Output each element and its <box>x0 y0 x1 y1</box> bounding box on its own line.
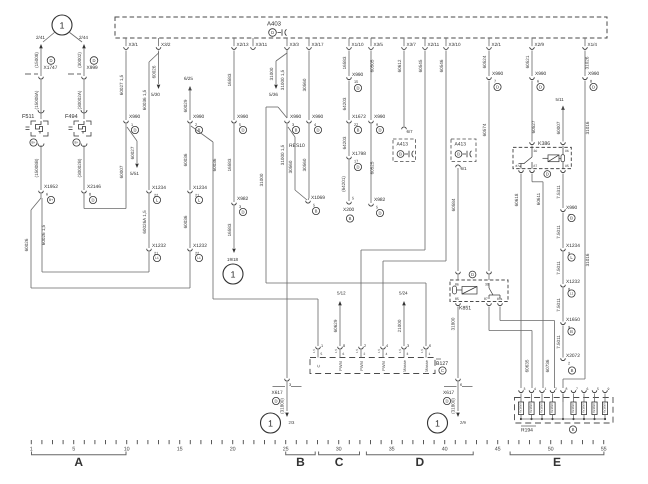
svg-text:1,5: 1,5 <box>420 349 424 354</box>
svg-text:(15008B): (15008B) <box>34 158 39 177</box>
svg-text:31800: 31800 <box>451 317 456 330</box>
svg-text:5: 5 <box>313 204 315 208</box>
svg-text:(30002B): (30002B) <box>77 158 82 177</box>
svg-text:8: 8 <box>590 80 592 84</box>
svg-text:B: B <box>570 216 573 221</box>
svg-text:R194: R194 <box>521 428 533 434</box>
svg-text:D: D <box>49 58 52 63</box>
svg-text:X990: X990 <box>566 205 578 211</box>
svg-text:40: 40 <box>442 447 448 453</box>
svg-text:3: 3 <box>407 344 409 348</box>
svg-text:5: 5 <box>72 447 75 453</box>
svg-text:X1798: X1798 <box>352 151 366 157</box>
svg-text:6/7: 6/7 <box>407 129 414 134</box>
svg-text:D: D <box>471 272 474 277</box>
svg-text:B: B <box>571 368 574 373</box>
svg-text:B: B <box>457 152 460 157</box>
svg-text:6: 6 <box>429 344 431 348</box>
svg-text:X1232: X1232 <box>566 279 580 285</box>
svg-text:D: D <box>91 198 94 203</box>
svg-text:85: 85 <box>565 164 569 168</box>
svg-text:B+: B+ <box>75 141 79 145</box>
svg-text:3: 3 <box>407 352 409 356</box>
svg-text:X2/11: X2/11 <box>428 42 440 47</box>
svg-text:20: 20 <box>230 447 236 453</box>
svg-text:35: 35 <box>389 447 395 453</box>
svg-text:D: D <box>274 399 277 404</box>
svg-text:60036: 60036 <box>183 153 188 166</box>
svg-text:45: 45 <box>495 447 501 453</box>
svg-text:B: B <box>357 128 360 133</box>
svg-text:2: 2 <box>568 362 570 366</box>
svg-text:D: D <box>592 85 595 90</box>
svg-text:D: D <box>496 85 499 90</box>
svg-text:X3/3: X3/3 <box>290 42 300 47</box>
svg-text:A413: A413 <box>455 142 467 148</box>
svg-text:A403: A403 <box>267 21 282 28</box>
svg-text:X990: X990 <box>312 114 324 120</box>
svg-text:(30002): (30002) <box>77 52 82 68</box>
svg-text:15: 15 <box>354 80 358 84</box>
svg-text:X617: X617 <box>272 390 284 396</box>
svg-text:60612: 60612 <box>397 59 402 72</box>
svg-text:2: 2 <box>364 344 366 348</box>
svg-text:86: 86 <box>565 149 569 153</box>
svg-text:D: D <box>92 58 95 63</box>
svg-text:D: D <box>271 30 274 35</box>
svg-text:D: D <box>546 172 549 177</box>
svg-text:X990: X990 <box>535 71 547 77</box>
svg-text:(15008): (15008) <box>34 52 39 68</box>
svg-text:1: 1 <box>131 123 133 127</box>
svg-text:D: D <box>356 86 359 91</box>
svg-text:2: 2 <box>555 387 557 391</box>
svg-text:30: 30 <box>485 283 489 287</box>
svg-text:C: C <box>335 455 344 469</box>
svg-text:X1747: X1747 <box>44 65 58 71</box>
svg-text:W16W: W16W <box>582 403 586 413</box>
svg-text:9: 9 <box>608 387 610 391</box>
svg-text:31000 1,5: 31000 1,5 <box>280 69 285 90</box>
svg-text:60635: 60635 <box>525 359 530 372</box>
svg-text:X1952: X1952 <box>44 184 58 190</box>
svg-text:3: 3 <box>239 205 241 209</box>
svg-text:60618: 60618 <box>514 193 519 206</box>
svg-text:60036: 60036 <box>183 215 188 228</box>
svg-text:W16W: W16W <box>550 403 554 413</box>
svg-text:1,5: 1,5 <box>398 349 402 354</box>
svg-text:60545: 60545 <box>418 59 423 72</box>
svg-text:X1234: X1234 <box>566 243 580 249</box>
svg-text:K851: K851 <box>459 306 471 312</box>
svg-text:X990: X990 <box>129 114 141 120</box>
svg-text:5/30: 5/30 <box>151 92 160 97</box>
svg-text:F494: F494 <box>65 114 78 120</box>
svg-text:6/25: 6/25 <box>184 76 193 81</box>
svg-text:87a: 87a <box>516 164 521 168</box>
svg-text:1: 1 <box>59 21 64 31</box>
svg-text:6: 6 <box>343 352 345 356</box>
svg-text:60027 1,5: 60027 1,5 <box>119 74 124 95</box>
svg-text:X982: X982 <box>237 196 249 202</box>
svg-text:60524: 60524 <box>482 55 487 68</box>
svg-text:D: D <box>241 210 244 215</box>
svg-text:60611: 60611 <box>536 192 541 205</box>
svg-text:60026 1,5: 60026 1,5 <box>41 224 46 245</box>
svg-text:X990: X990 <box>237 114 249 120</box>
svg-text:60007: 60007 <box>556 121 561 134</box>
svg-text:B: B <box>572 427 575 432</box>
svg-text:60584: 60584 <box>451 198 456 211</box>
svg-text:A413: A413 <box>397 142 409 148</box>
svg-text:60521: 60521 <box>525 55 530 68</box>
svg-text:L1: L1 <box>155 256 159 260</box>
svg-text:5/11: 5/11 <box>556 97 565 102</box>
svg-text:5: 5 <box>239 123 241 127</box>
svg-text:60036: 60036 <box>212 158 217 171</box>
svg-text:3: 3 <box>289 383 291 387</box>
svg-text:60574: 60574 <box>482 123 487 136</box>
svg-text:19/18: 19/18 <box>227 257 239 262</box>
svg-text:X3/10: X3/10 <box>449 42 461 47</box>
svg-text:5/36: 5/36 <box>269 92 278 97</box>
svg-text:2: 2 <box>364 352 366 356</box>
svg-text:D: D <box>241 128 244 133</box>
svg-text:31026: 31026 <box>585 56 590 69</box>
svg-text:Masse: Masse <box>402 359 407 372</box>
svg-text:X3/11: X3/11 <box>256 42 268 47</box>
svg-text:1: 1 <box>268 419 273 429</box>
svg-text:21000: 21000 <box>397 319 402 332</box>
svg-text:A: A <box>74 455 83 469</box>
svg-text:L1: L1 <box>570 292 574 296</box>
svg-text:7.5011: 7.5011 <box>556 335 561 349</box>
svg-text:7.5311: 7.5311 <box>556 185 561 199</box>
svg-text:5: 5 <box>352 197 354 201</box>
svg-text:2: 2 <box>195 123 197 127</box>
svg-text:8: 8 <box>89 193 91 197</box>
svg-text:B: B <box>570 329 573 334</box>
svg-text:Masse: Masse <box>424 359 429 372</box>
svg-text:W16W: W16W <box>540 403 544 413</box>
svg-text:31000: 31000 <box>269 67 274 80</box>
svg-text:64203: 64203 <box>342 97 347 110</box>
svg-text:6: 6 <box>46 193 48 197</box>
svg-text:X990: X990 <box>352 72 364 78</box>
svg-text:31000: 31000 <box>259 173 264 186</box>
svg-text:W16W: W16W <box>592 403 596 413</box>
svg-text:87: 87 <box>484 297 488 301</box>
svg-text:B: B <box>349 216 352 221</box>
svg-text:5: 5 <box>321 352 323 356</box>
svg-text:7: 7 <box>494 80 496 84</box>
svg-text:86: 86 <box>455 283 459 287</box>
svg-text:X999: X999 <box>87 65 99 71</box>
svg-text:(15008A): (15008A) <box>34 90 39 109</box>
svg-text:F511: F511 <box>22 114 34 120</box>
svg-text:60026: 60026 <box>152 65 157 78</box>
svg-text:60007: 60007 <box>119 165 124 178</box>
svg-text:PWM: PWM <box>338 361 343 371</box>
svg-text:X1/10: X1/10 <box>352 42 364 47</box>
svg-text:D: D <box>378 211 381 216</box>
svg-text:2/41: 2/41 <box>36 35 45 40</box>
svg-text:X3/5: X3/5 <box>374 42 384 47</box>
svg-text:6: 6 <box>460 383 462 387</box>
svg-text:D: D <box>356 165 359 170</box>
svg-text:(64201): (64201) <box>341 176 346 192</box>
svg-text:B127: B127 <box>436 361 448 367</box>
svg-text:60029: 60029 <box>183 99 188 112</box>
svg-text:X1234: X1234 <box>152 185 166 191</box>
svg-text:B: B <box>399 152 402 157</box>
svg-text:31016: 31016 <box>585 253 590 266</box>
svg-text:60527: 60527 <box>531 120 536 133</box>
svg-text:D: D <box>445 399 448 404</box>
svg-text:5/12: 5/12 <box>337 291 346 296</box>
svg-text:B+: B+ <box>49 198 53 202</box>
svg-text:W16W: W16W <box>519 403 523 413</box>
svg-text:30560: 30560 <box>302 78 307 91</box>
svg-text:W16W: W16W <box>603 403 607 413</box>
svg-text:6: 6 <box>537 80 539 84</box>
svg-text:X3/1: X3/1 <box>129 42 139 47</box>
svg-text:6/1: 6/1 <box>461 166 468 171</box>
svg-text:30: 30 <box>534 149 538 153</box>
svg-text:2/44: 2/44 <box>79 35 88 40</box>
svg-text:K386: K386 <box>538 141 550 147</box>
svg-text:X1650: X1650 <box>566 317 580 323</box>
svg-text:X3/17: X3/17 <box>312 42 324 47</box>
svg-text:D: D <box>539 85 542 90</box>
svg-text:W16W: W16W <box>571 403 575 413</box>
svg-text:5: 5 <box>597 387 599 391</box>
svg-text:B: B <box>295 128 298 133</box>
svg-text:PWM: PWM <box>381 361 386 371</box>
svg-text:6: 6 <box>587 387 589 391</box>
svg-text:X1232: X1232 <box>152 243 166 249</box>
svg-text:1,5: 1,5 <box>355 349 359 354</box>
svg-text:87a: 87a <box>497 297 503 301</box>
svg-text:30560: 30560 <box>288 160 293 173</box>
svg-text:D: D <box>133 128 136 133</box>
svg-text:X990: X990 <box>588 71 600 77</box>
svg-text:D: D <box>415 455 424 469</box>
svg-text:1: 1 <box>435 419 440 429</box>
svg-text:X1232: X1232 <box>193 243 207 249</box>
svg-text:X1234: X1234 <box>193 185 207 191</box>
svg-text:16583: 16583 <box>227 223 232 236</box>
svg-text:RES10: RES10 <box>289 143 305 149</box>
svg-text:60036 1,5: 60036 1,5 <box>142 89 147 110</box>
svg-text:X2146: X2146 <box>87 184 101 190</box>
svg-text:30: 30 <box>336 447 342 453</box>
svg-text:B: B <box>315 209 318 214</box>
svg-text:D: D <box>316 128 319 133</box>
svg-text:60525: 60525 <box>370 161 375 174</box>
svg-text:B+: B+ <box>32 141 36 145</box>
svg-text:X1672: X1672 <box>352 114 366 120</box>
svg-text:X2/1: X2/1 <box>492 42 502 47</box>
svg-text:5: 5 <box>376 206 378 210</box>
svg-text:17: 17 <box>354 160 358 164</box>
svg-text:15: 15 <box>177 447 183 453</box>
svg-text:X2/13: X2/13 <box>237 42 249 47</box>
svg-text:L1: L1 <box>197 256 201 260</box>
svg-text:X3/7: X3/7 <box>407 42 417 47</box>
svg-text:C: C <box>441 368 444 373</box>
svg-text:1,5: 1,5 <box>334 349 338 354</box>
svg-text:87: 87 <box>534 164 538 168</box>
svg-text:7: 7 <box>576 387 578 391</box>
svg-text:16583: 16583 <box>227 73 232 86</box>
svg-text:1,5: 1,5 <box>377 349 381 354</box>
svg-text:50: 50 <box>548 447 554 453</box>
svg-text:60736: 60736 <box>545 359 550 372</box>
svg-text:X990: X990 <box>193 114 205 120</box>
svg-text:D: D <box>378 128 381 133</box>
svg-text:X200: X200 <box>343 207 355 213</box>
svg-text:2/9: 2/9 <box>460 420 466 425</box>
svg-text:X3/2: X3/2 <box>161 42 171 47</box>
svg-text:60027: 60027 <box>130 146 135 159</box>
svg-text:60026: 60026 <box>24 238 29 251</box>
svg-text:60505: 60505 <box>370 59 375 72</box>
svg-text:(30002A): (30002A) <box>77 90 82 109</box>
svg-text:64203: 64203 <box>342 136 347 149</box>
svg-text:4: 4 <box>534 387 536 391</box>
svg-text:1: 1 <box>545 387 547 391</box>
svg-text:X2/9: X2/9 <box>535 42 545 47</box>
svg-text:30560: 30560 <box>302 158 307 171</box>
svg-text:60546: 60546 <box>439 59 444 72</box>
svg-text:8: 8 <box>566 387 568 391</box>
svg-text:1: 1 <box>321 344 323 348</box>
svg-text:4: 4 <box>314 123 316 127</box>
svg-text:60026A 1,5: 60026A 1,5 <box>142 210 147 234</box>
svg-text:5/24: 5/24 <box>399 291 408 296</box>
svg-text:1: 1 <box>429 352 431 356</box>
svg-text:X1069: X1069 <box>311 195 325 201</box>
svg-text:7.5011: 7.5011 <box>556 298 561 312</box>
svg-text:X1/4: X1/4 <box>588 42 598 47</box>
svg-text:7.5011: 7.5011 <box>556 225 561 239</box>
svg-text:3: 3 <box>292 123 294 127</box>
svg-text:10: 10 <box>124 447 130 453</box>
svg-text:X990: X990 <box>492 71 504 77</box>
svg-text:E: E <box>553 455 561 469</box>
svg-text:85: 85 <box>455 297 459 301</box>
svg-text:1: 1 <box>230 270 235 280</box>
svg-text:(31800): (31800) <box>280 398 285 414</box>
svg-text:X617: X617 <box>443 390 455 396</box>
svg-text:3: 3 <box>524 387 526 391</box>
svg-text:31000 1,5: 31000 1,5 <box>280 144 285 165</box>
svg-text:C: C <box>316 364 321 367</box>
svg-text:PWM: PWM <box>359 361 364 371</box>
svg-text:16583: 16583 <box>227 158 232 171</box>
svg-text:9: 9 <box>376 123 378 127</box>
svg-text:X2072: X2072 <box>566 353 580 359</box>
svg-text:5/51: 5/51 <box>130 171 139 176</box>
svg-text:7.5011: 7.5011 <box>556 261 561 275</box>
svg-text:X990: X990 <box>374 114 386 120</box>
svg-text:X990: X990 <box>290 114 302 120</box>
svg-text:31016: 31016 <box>585 121 590 134</box>
svg-text:2/3: 2/3 <box>289 420 295 425</box>
svg-text:4: 4 <box>386 344 388 348</box>
svg-text:4: 4 <box>386 352 388 356</box>
svg-text:8: 8 <box>343 344 345 348</box>
svg-text:X982: X982 <box>374 197 386 203</box>
svg-text:(31800): (31800) <box>451 398 456 414</box>
svg-text:W16W: W16W <box>529 403 533 413</box>
svg-text:1,5: 1,5 <box>312 349 316 354</box>
svg-text:B: B <box>296 455 305 469</box>
svg-text:60629: 60629 <box>333 319 338 332</box>
svg-text:16583: 16583 <box>342 56 347 69</box>
